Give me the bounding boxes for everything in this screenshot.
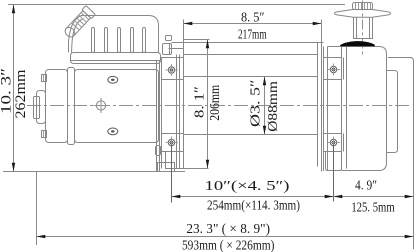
right pad lower foot	[326, 152, 342, 171]
T-handle knob cap	[353, 3, 373, 10]
control box fin 5	[143, 28, 146, 53]
254 dim line	[172, 196, 414, 198]
control box fin 4	[131, 28, 134, 53]
svg-text:217mm: 217mm	[238, 28, 267, 43]
svg-text:254mm(×114. 3mm): 254mm(×114. 3mm)	[207, 198, 300, 213]
connector link lines	[169, 48, 184, 50]
svg-text:125. 5mm: 125. 5mm	[351, 201, 394, 216]
center axis line	[27, 105, 412, 107]
rear plate right	[388, 58, 414, 250]
arrow 8.5 left	[184, 22, 193, 25]
arrow 125 right	[405, 195, 414, 198]
control box dome inner wall	[72, 19, 84, 53]
svg-text:206mm: 206mm	[208, 85, 223, 121]
motor screw oval top	[108, 76, 118, 83]
drum barrel top	[184, 76, 318, 78]
clutch cam black band	[340, 41, 375, 46]
arrow height top	[12, 5, 15, 14]
right upper pad	[324, 58, 342, 80]
motor end cap	[46, 70, 68, 143]
motor left boss collar	[37, 91, 46, 124]
flange top ref stub	[184, 39, 210, 41]
ext overall left	[36, 172, 38, 246]
overall dim line	[37, 236, 414, 238]
T-handle stem	[354, 17, 373, 38]
drum barrel bottom	[184, 134, 318, 136]
motor left boss outer	[34, 97, 40, 119]
gear housing outline	[328, 47, 387, 171]
svg-text:23. 3" ( × 8. 9"): 23. 3" ( × 8. 9")	[186, 222, 270, 237]
arrow height bottom	[12, 163, 15, 172]
motor flange ring	[68, 68, 75, 145]
svg-text:8. 5″: 8. 5″	[241, 11, 265, 26]
dia dim line	[264, 77, 266, 135]
motor terminal stud bottom	[42, 131, 47, 138]
control box fin 2	[105, 28, 108, 53]
arrow 8.1 top	[206, 40, 209, 49]
control box dome	[69, 16, 159, 53]
right lower bolt	[328, 137, 341, 149]
right pad plate edges	[324, 47, 342, 172]
gear housing flange bump	[387, 71, 398, 153]
connector tab on box right	[166, 36, 172, 41]
height dim line	[13, 5, 15, 172]
left pad lower foot	[166, 152, 184, 169]
connector block	[163, 44, 172, 55]
motor terminal stud top	[42, 75, 47, 82]
left pad plate edges	[162, 20, 184, 169]
pad double edges	[343, 58, 345, 152]
svg-text:Ø88mm: Ø88mm	[266, 81, 281, 132]
arrow overall left	[37, 235, 46, 238]
right upper bolt	[328, 64, 341, 76]
ext line top (height ref)	[8, 4, 345, 6]
control box fin 1	[92, 28, 95, 53]
arrow 125 left	[334, 195, 343, 198]
svg-text:593mm ( × 226mm): 593mm ( × 226mm)	[182, 238, 275, 252]
adapter plate	[157, 61, 160, 172]
arrow overall right	[405, 235, 414, 238]
left upper pad	[162, 58, 184, 80]
ext 254 right	[333, 144, 335, 202]
svg-text:4. 9″: 4. 9″	[355, 179, 377, 194]
svg-text:8. 1″: 8. 1″	[193, 86, 208, 118]
control box fin 3	[118, 28, 121, 53]
8.1 bottom ref stub	[184, 168, 209, 170]
arrow dia top	[263, 77, 266, 86]
right bracket divider	[346, 47, 348, 169]
motor screw oval bottom	[108, 128, 118, 135]
ext 254 left	[171, 144, 173, 203]
adapter plate foot	[158, 163, 175, 172]
adapter plate ear	[156, 146, 161, 156]
drum left flange edges	[177, 55, 180, 169]
arrow 254 left	[172, 195, 181, 198]
arrow 8.5 right	[313, 22, 322, 25]
T-handle wings	[335, 10, 391, 18]
svg-text:10″(×4. 5″): 10″(×4. 5″)	[205, 179, 290, 194]
motor center hole	[94, 98, 109, 113]
8.5 dim line	[184, 23, 322, 25]
ext 8.5 right	[321, 20, 323, 43]
left lower pad	[162, 134, 184, 152]
clutch T-handle center line	[362, 1, 364, 57]
ext line bottom-left base	[3, 171, 185, 173]
svg-text:Ø3. 5″: Ø3. 5″	[249, 79, 264, 127]
arrow 8.1 bottom	[206, 160, 209, 169]
left upper bolt	[166, 64, 179, 76]
arrow dia bottom	[263, 126, 266, 135]
arrow 254 right	[325, 195, 334, 198]
drum tie bar top lines	[172, 43, 324, 55]
clutch lever	[62, 6, 95, 40]
drum right flange edges	[318, 20, 322, 172]
svg-text:262mm: 262mm	[13, 69, 29, 118]
motor body	[75, 70, 159, 143]
left lower bolt	[166, 137, 179, 149]
8.1 dim line	[207, 40, 209, 169]
right lower pad	[324, 134, 342, 152]
control box base	[71, 53, 161, 64]
gear housing left edge	[327, 47, 329, 171]
